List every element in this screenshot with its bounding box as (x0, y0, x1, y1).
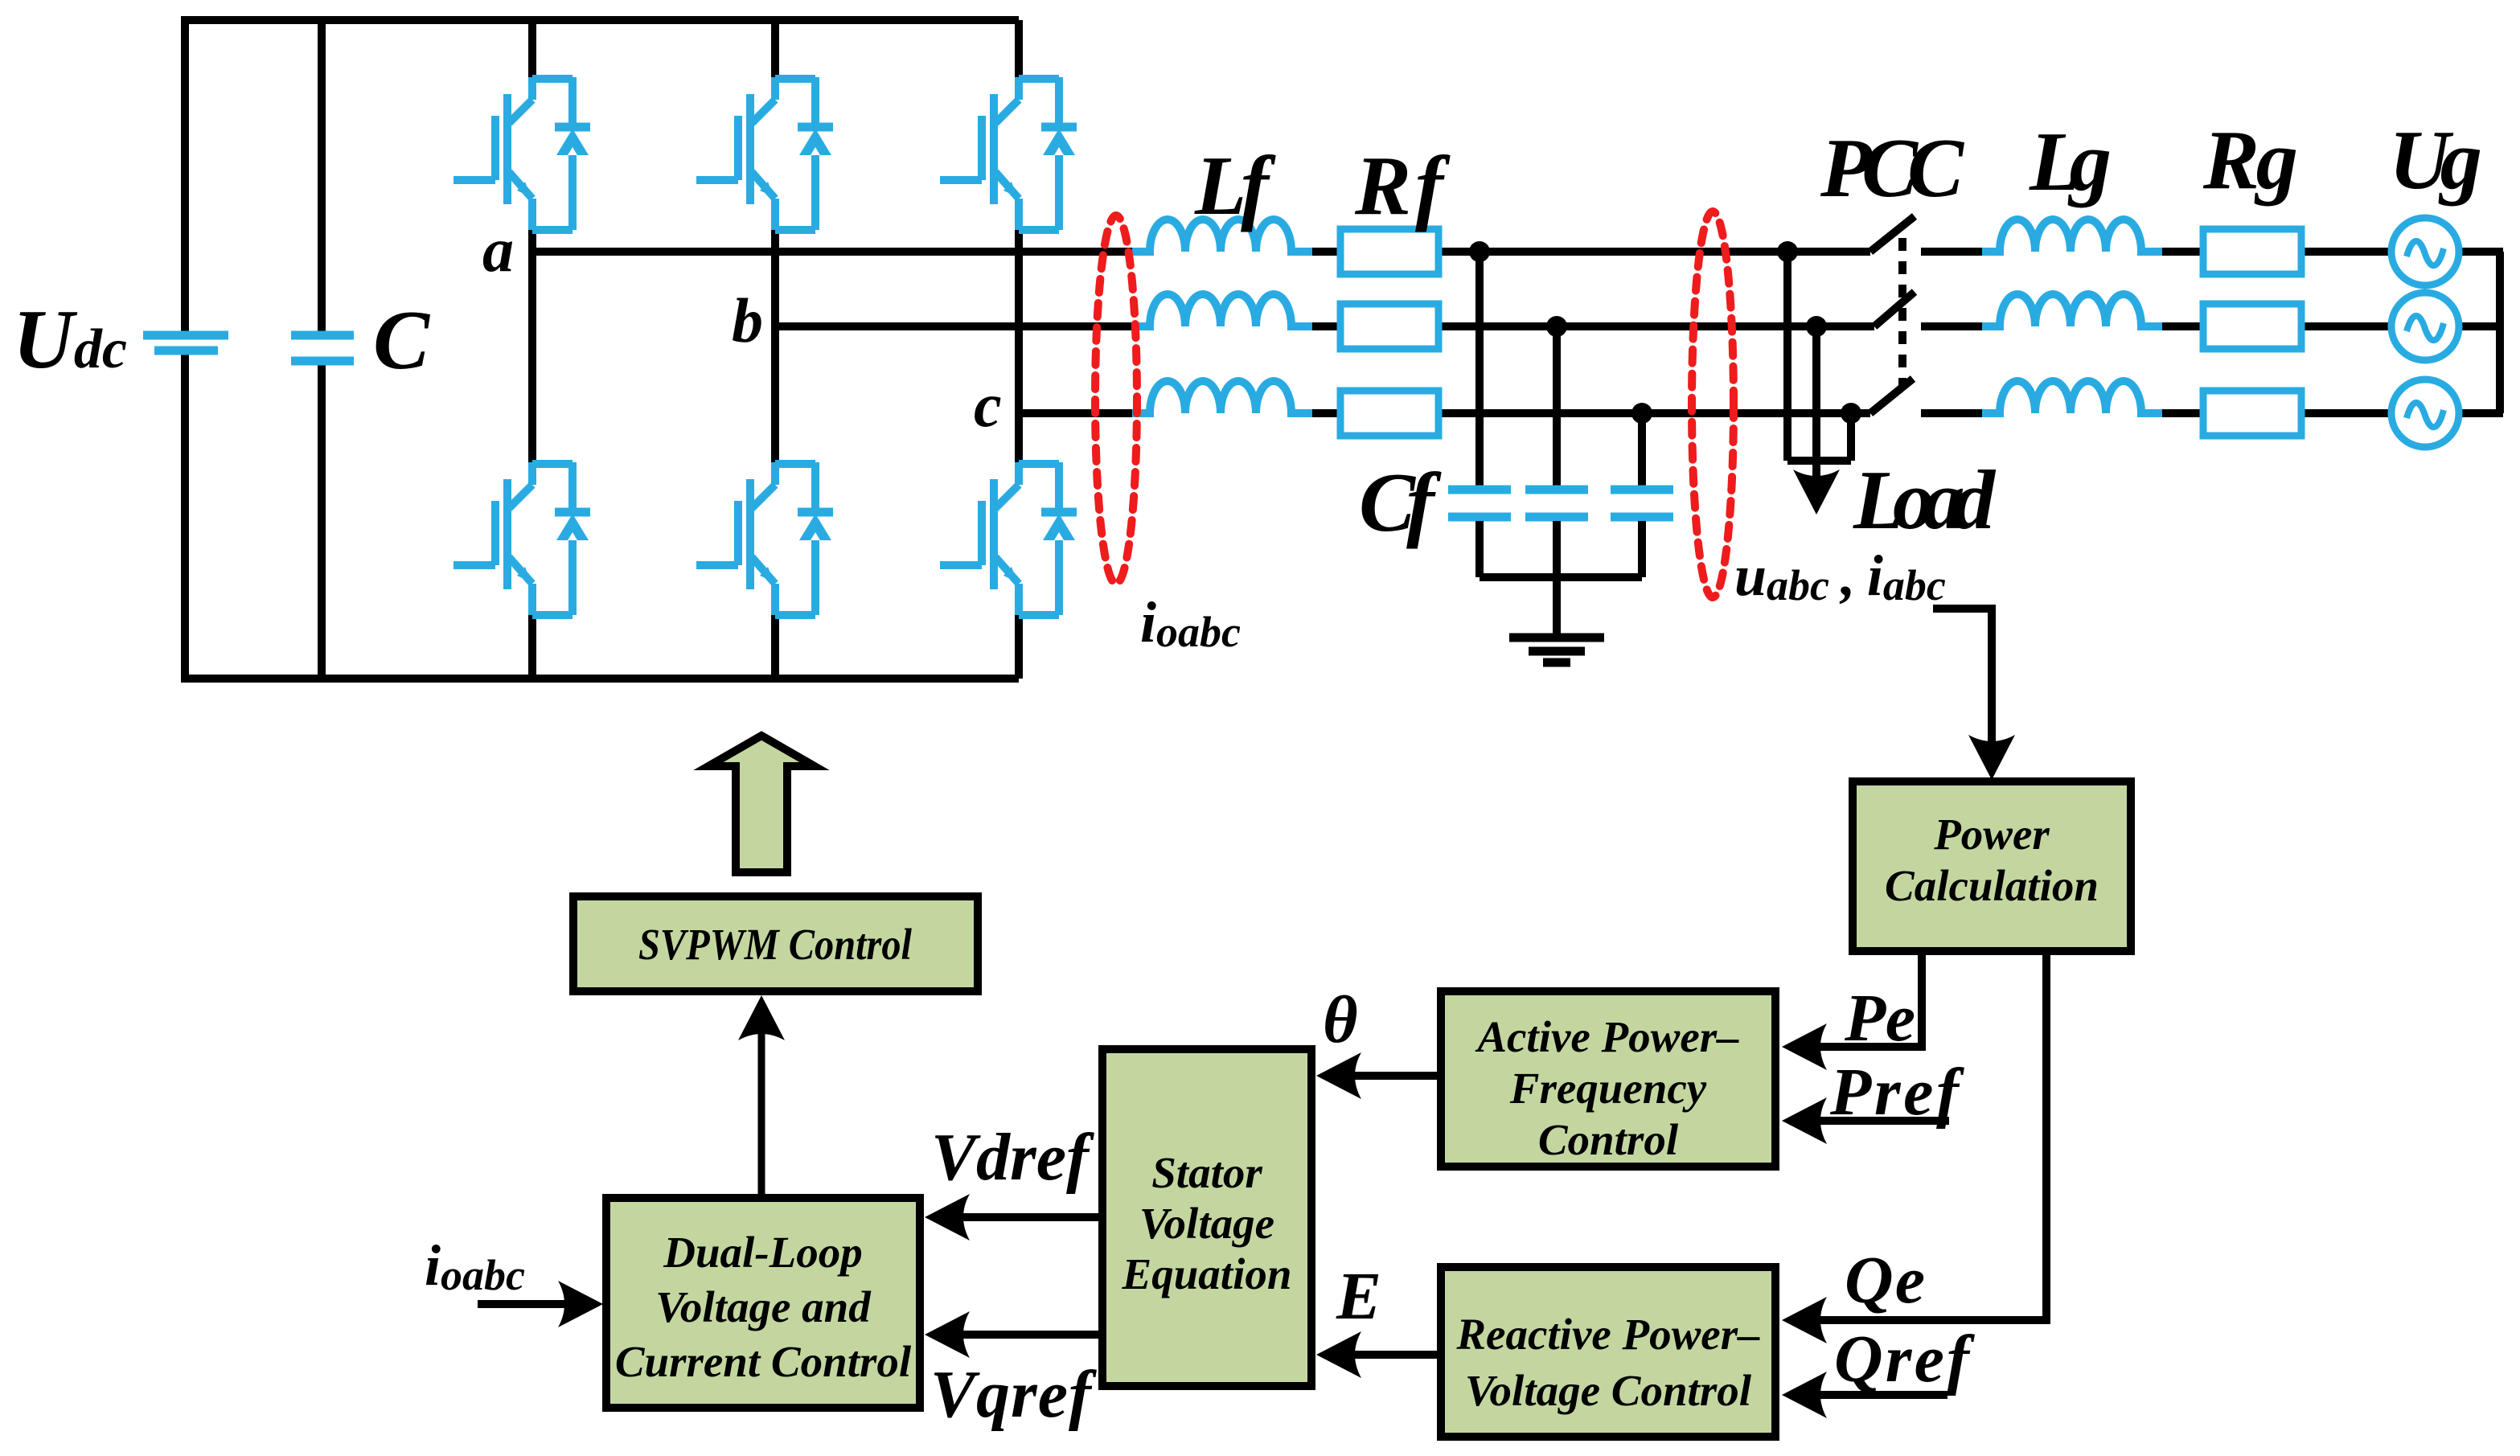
resistor Rf phase b (1340, 304, 1439, 349)
svg-text:Lf: Lf (1194, 138, 1276, 232)
switch PCC phase c (1870, 379, 1913, 413)
wire: leg b vertical segments (771, 20, 779, 679)
svg-text:PCC: PCC (1820, 121, 1965, 215)
svg-text:Lg: Lg (2029, 114, 2112, 208)
arrow E into Stator (1316, 1331, 1361, 1378)
wire: Cf bottom bracket (1480, 521, 1642, 638)
arrow Vdref into Dual-Loop (925, 1194, 970, 1241)
svg-text:Vdref: Vdref (931, 1120, 1094, 1195)
svg-text:Rf: Rf (1354, 138, 1451, 232)
block Dual-Loop Voltage and Current Control (606, 1198, 920, 1408)
wire: phase b line (775, 322, 1874, 330)
junction load b (1806, 316, 1827, 337)
capacitor Cf phase a (1448, 490, 1511, 517)
transistor S5 (IGBT top, leg c) (940, 77, 1077, 230)
wire: ioabc into Dual-Loop (478, 1300, 592, 1308)
svg-text:Qe: Qe (1845, 1243, 1925, 1318)
arrow theta into Stator (1316, 1052, 1361, 1099)
junction load c (1841, 403, 1861, 424)
wire: grid right bus (2496, 252, 2504, 413)
wire: Cf drop phase b (1553, 326, 1561, 486)
source Ug phase c (2391, 379, 2459, 447)
resistor Rf phase c (1340, 391, 1439, 436)
junction phase b / Cf (1546, 316, 1567, 337)
svg-text:Vqref: Vqref (930, 1357, 1097, 1432)
svg-text:a: a (482, 215, 514, 285)
transistor S6 (IGBT bottom, leg c) (940, 462, 1077, 615)
inductor Lg phase b (1982, 294, 2162, 326)
switch PCC phase a (1870, 216, 1915, 252)
svg-text:Rg: Rg (2202, 113, 2298, 207)
wire: load tap b (1812, 327, 1820, 461)
svg-text:b: b (732, 285, 763, 355)
block SVPWM Control (573, 896, 978, 991)
resistor Rf phase a (1340, 229, 1439, 274)
svg-text:ioabc: ioabc (1140, 590, 1241, 656)
inductor Lf phase c (1132, 381, 1312, 413)
source Ug phase a (2391, 218, 2459, 285)
junction phase a / Cf (1469, 241, 1490, 262)
block Stator Voltage Equation (1102, 1049, 1311, 1386)
arrow ioabc into Dual-Loop (558, 1281, 603, 1327)
svg-text:Voltage Control: Voltage Control (1465, 1366, 1752, 1415)
arrow Pe into Active box (1782, 1023, 1827, 1070)
arrow: load (1793, 470, 1840, 515)
wire: grid line c (1921, 409, 2503, 417)
inductor Lf phase b (1132, 294, 1312, 326)
wire: leg a vertical segments (528, 20, 536, 679)
svg-text:SVPWM Control: SVPWM Control (638, 920, 913, 969)
svg-text:θ: θ (1323, 982, 1358, 1057)
wire: Qe (1795, 951, 2046, 1320)
switch PCC linkage (dashed) (1898, 238, 1906, 386)
svg-text:Calculation: Calculation (1885, 861, 2099, 910)
svg-text:Power: Power (1933, 810, 2050, 859)
svg-text:Frequency: Frequency (1509, 1064, 1707, 1113)
wire: Qref (1795, 1391, 1947, 1399)
wire: E Reactive to Stator (1328, 1351, 1441, 1359)
svg-text:Control: Control (1538, 1115, 1679, 1164)
svg-text:Load: Load (1853, 453, 1997, 547)
capacitor C plates (291, 335, 354, 361)
arrow Vqref into Dual-Loop (925, 1311, 970, 1358)
inductor Lg phase a (1982, 219, 2162, 252)
transistor S1 (IGBT top, leg a) (454, 77, 590, 230)
resistor Rg phase a (2203, 229, 2301, 274)
arrow: big block arrow to inverter (708, 736, 815, 872)
svg-text:Equation: Equation (1122, 1249, 1292, 1298)
inductor Lg phase c (1982, 381, 2162, 413)
svg-text:Current Control: Current Control (615, 1337, 912, 1386)
wire: grid line b (1921, 322, 2503, 330)
transistor S4 (IGBT bottom, leg b) (696, 462, 833, 615)
wire: DC bottom bus (185, 675, 1019, 683)
arrow Qe into Reactive box (1782, 1297, 1827, 1343)
svg-text:Stator: Stator (1151, 1148, 1262, 1197)
current sensor ellipse ioabc (1095, 215, 1137, 584)
wire: Cf drop phase c (1638, 413, 1646, 486)
inductor Lf phase a (1132, 219, 1312, 252)
junction phase c / Cf (1631, 403, 1652, 424)
transistor S3 (IGBT top, leg b) (696, 77, 833, 230)
wire: Udc branch vertical (with battery gap) (181, 16, 189, 683)
wire: leg c vertical segments (1015, 20, 1023, 679)
arrow into Power Calculation (1968, 735, 2015, 780)
svg-text:Voltage: Voltage (1139, 1199, 1274, 1248)
ground (1509, 638, 1604, 662)
svg-text:Ug: Ug (2389, 113, 2482, 207)
svg-text:uabc , iabc: uabc , iabc (1734, 543, 1946, 609)
wire: phase c line (1019, 409, 1870, 417)
wire: theta Active to Stator (1328, 1072, 1441, 1080)
svg-text:Cf: Cf (1359, 455, 1442, 549)
svg-text:Qref: Qref (1834, 1322, 1975, 1397)
dc source Udc battery plates (143, 335, 228, 351)
wire: grid line a (1921, 248, 2503, 256)
wire: uabc iabc to Power Calculation (1933, 609, 1992, 772)
svg-text:Pe: Pe (1844, 981, 1915, 1056)
svg-text:Pref: Pref (1829, 1055, 1964, 1130)
transistor S2 (IGBT bottom, leg a) (454, 462, 590, 615)
svg-text:Dual-Loop: Dual-Loop (663, 1228, 863, 1277)
voltage/current sensor ellipse uabc iabc (1692, 211, 1734, 597)
resistor Rg phase c (2203, 391, 2301, 436)
block Active Power-Frequency Control (1441, 991, 1775, 1167)
svg-text:Active Power–: Active Power– (1475, 1012, 1739, 1061)
svg-text:Udc: Udc (13, 292, 127, 386)
block Power Calculation (1853, 781, 2131, 951)
arrow Pref into Active box (1782, 1097, 1827, 1144)
svg-text:C: C (373, 293, 431, 387)
wire: DC top bus (185, 16, 1019, 24)
svg-text:Voltage and: Voltage and (655, 1282, 872, 1331)
wire: load tap c (1847, 415, 1855, 461)
resistor Rg phase b (2203, 304, 2301, 349)
wire: Dual-Loop to SVPWM (758, 1003, 765, 1198)
capacitor C branch vertical (with gap) (318, 16, 326, 683)
wire: Pe (1795, 951, 1922, 1047)
svg-text:Reactive Power–: Reactive Power– (1455, 1310, 1760, 1359)
wire: Vdref Stator to Dual-Loop (938, 1213, 1102, 1221)
capacitor Cf phase b (1525, 490, 1588, 517)
svg-text:ioabc: ioabc (425, 1233, 525, 1299)
arrow into SVPWM (738, 995, 785, 1040)
block Reactive Power-Voltage Control (1441, 1267, 1775, 1437)
wire: load tap a (1783, 250, 1791, 461)
svg-text:E: E (1336, 1259, 1381, 1334)
arrow Qref into Reactive box (1782, 1372, 1827, 1418)
wire: Cf drop phase a (1475, 252, 1484, 486)
junction load a (1777, 241, 1798, 262)
capacitor Cf phase c (1611, 490, 1673, 517)
svg-text:c: c (974, 370, 1002, 440)
wire: phase a line (inverter to switch) (532, 248, 1870, 256)
wire: load bracket (1787, 461, 1851, 481)
source Ug phase b (2391, 293, 2459, 360)
wire: Vqref Stator to Dual-Loop (938, 1331, 1102, 1339)
switch PCC phase b (1874, 292, 1915, 326)
wire: Pref (1795, 1117, 1949, 1125)
